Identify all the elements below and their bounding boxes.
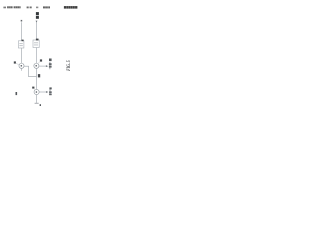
svg-text:FIG. 5: FIG. 5: [66, 60, 72, 71]
